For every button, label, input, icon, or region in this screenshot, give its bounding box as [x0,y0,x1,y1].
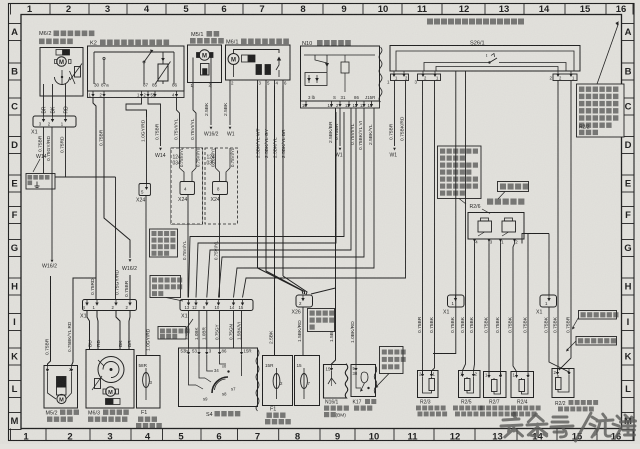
M5/2 pump dark square [57,377,67,388]
M5/1 box [188,45,222,83]
ground stub W16/2 left [51,260,54,263]
K2 bottom connector strip [88,91,185,98]
S4 supply wires from X1 with labels [188,311,190,349]
R2/6 element 1 [478,221,492,232]
S26/1 connector 3 pins 2 1 [553,74,577,81]
M6/1 box [226,45,291,80]
M6/2 resistor with arrow [75,67,81,78]
wire 0.75BR S26 conn3 crossing diagonal to R2/2 [559,81,571,371]
F1a fuse symbol [143,373,150,388]
R2/6 element 2 [502,221,516,232]
M6/3 resistor [95,379,101,389]
N16/1 internal fork symbol [328,371,332,384]
pointer from note to R2/6 label [459,199,466,205]
nested corners continued from upper wires [207,108,351,298]
N10 sub box with diodes [305,73,327,86]
pointer line to heater name text [498,192,505,200]
wire 0.75BK R2/6 pin1 to R2/7 pin2 [500,244,502,376]
S26/1 wide box [390,46,580,72]
M6/1 top routing wire [234,50,280,54]
K2 stepped wire to 1.0GY/RD vertical [126,98,147,118]
wire X1 pin2 down to W16/2 label 0.75GY/RD [51,127,53,256]
note box: wire colour code [579,311,617,320]
N10 relay internals [304,54,375,56]
wire 0.75BK from S26 conn2 to R2/3 pin1 [432,81,435,375]
R2/6 pin2 n-bend wire over to x549 [522,234,549,244]
heater R2/5 right washer nozzle hose [459,371,481,398]
wire X24-8 down to X1 pin10 [219,195,221,298]
M6/1 connector pair [242,55,249,62]
connector X24 pin 5 [139,184,151,196]
S4 internal stepped wiring [189,355,197,385]
component M6/2 box [40,48,83,97]
connector X1 lower-left [83,300,137,311]
M6/1 output wires 2.5BK/YL bundle [257,86,259,269]
wire M6/1 pin2 to ground W1 label 2.5BK [229,86,231,126]
grid row letters left and right [9,24,22,41]
note box: pin sequence on connector [150,276,181,298]
note box: device code explanation [438,146,482,199]
M6/3 pins and wires BU RD BK BR [87,311,90,350]
component M5/2 headlamp washer pump [44,366,78,409]
wire X1 pin3 down to ground W14 label 0.75BR [43,127,45,174]
S26/1 connector 2 pins 2 1 [418,74,441,81]
M5/1 motor M [199,50,209,60]
heater R2/7 windshield washer pump hose [484,372,507,398]
M6/3 motor M [106,387,116,397]
fuse box F1b [263,356,293,406]
K17 wavy right edge [374,366,377,394]
connector X1 lower-right long [180,300,253,311]
dashed variant box 124 036 [205,148,238,224]
dashed variant box 124 034 [171,148,203,224]
wire 0.75BK from S26 box to R2/5 pin1 [463,71,466,371]
inline connector X1 mid lower 2 [540,295,557,307]
M6/2 motor M [57,57,67,67]
M6/2 connector pair [56,50,63,56]
R2/6 pins 4 3 1 2 [474,239,476,244]
wire M5/1 pin1 to dashed box1 label 0.75VI/YL [193,88,196,148]
K2 pin2 wire to W14 right ground [148,98,161,147]
wire X24-5 down to fuse box F1a [145,196,147,356]
K2 relay internals [94,51,174,53]
wire X26 down to fuse box label 1.5BK/RD [302,307,304,356]
connector X1 top-left [33,116,76,127]
text: one-way valve heating [487,199,493,205]
M6/1 pins 2 3 5 4 6 [229,80,231,86]
N10 box [301,46,380,101]
S4 wavy break right edge [256,349,259,411]
M6/1 wire 2.5BK/YL straight down to fuse box F1b [274,86,276,356]
grid column numbers top [10,4,12,15]
wire 0.75BK S26 conn3 to R2/2 pin2 [557,81,560,373]
vertical wire x115 to lower X1 label 0.75GY/RD [115,177,117,300]
note box: connector code [158,327,186,340]
scan noise overlay [0,0,1,1]
wire 0.75BK R2/6 pin3 to R2/7 pin1 [488,244,490,376]
watermark toutiao qixiujun [501,413,636,441]
wire 0.75BK from bend to R2/4 pin2 [527,234,529,372]
wire X24-4 down to X1 pin13 [187,195,189,298]
M6/2 pin stubs [43,84,45,96]
note box: coordinate explanation with arrow to corner [597,24,619,85]
M5/2 motor M [57,394,66,403]
M6/3 connector pair [106,399,113,405]
heater R2/2 left windshield washer hose [552,369,574,398]
note box: curve shows part of connector [308,309,335,332]
wire M5/1 pin2 to ground W16/2 label 2.5BK [210,88,212,125]
K2 relay box [88,46,185,91]
K17 internal pressure switch symbol [361,372,368,383]
N10 output wire to N16/1 with labels [332,108,336,365]
M5/1 pump symbol [201,64,210,76]
wire 0.75BK through inline X1 to R2/2 pin1 [548,234,550,296]
note box: wire gauge code [576,337,617,346]
wire K2 pin 2Y down to ground W16/2 label 0.75BR [104,98,130,259]
component K17 pressure relay [351,365,376,397]
N10 wavy break line right edge [379,47,382,102]
M5/2 supply wire corner route label 0.75BK/YL RD [72,278,97,366]
wires M6/2 to X1 with labels BR BK RD [43,96,45,116]
S4 quarter arc contact [212,377,228,393]
wire 0.75BK from R2/6 pin4 to R2/5 pin2 [474,244,475,371]
note box: different vehicle variants [150,229,178,257]
wire K2 pin4 to dashed box1 label 0.75VI/YL [177,98,180,149]
ground point marker box [26,174,55,190]
wire below W16/2 to lower X1 pin2 [129,275,131,300]
S4 terminals 53b 53 3 86 15R [188,348,190,352]
wire 0.75BR from S26 conn2 to R2/3 pin2 [422,81,424,375]
component S4 combination switch box [179,348,258,407]
inline connector X1 mid lower 1 [448,295,465,307]
M5/1 side rails [192,58,194,83]
component N16/1 power control module with wavy right edge [324,364,348,398]
S26/1 thermal switch contact [489,62,491,64]
wire X1 pin1 down label 0.75RD [65,127,67,170]
X26 feeder branch wire [311,288,336,294]
S26/1 inner bus lines [396,51,574,71]
S26/1 connector 1 pins 1 2 [391,74,409,81]
component M6/3 right headlamp wiper motor [86,350,134,409]
fuse box third [295,356,320,406]
wire from ground box to junction x115 [55,176,116,178]
M5/2 supply wire from W16/2 label 0.75BR [48,276,51,366]
N10 wire to ground W1 [339,108,341,146]
component R2/6 check valve heater box [468,213,524,240]
M6/1 two resistors [256,65,262,75]
grid column numbers bottom [10,429,12,441]
connector X26 with converging wires [296,295,313,307]
wire 0.75BK R2/6 pin2 to R2/4 pin1 [513,244,517,372]
arrow from wavy note to K17 [377,374,390,387]
M6/2 lower rotor arc [55,77,70,85]
heater R2/3 right windshield washer nozzle [418,371,439,398]
N10 wire to K17 label 0.75VI/YL then 1.0BK/RD [355,108,357,365]
S26 connector1 pin1 wire to ground W1 label 0.75BR [394,81,396,147]
N10 bottom pin strip [301,101,380,108]
M6/3 worm gear circle [98,357,124,383]
note box: device name [498,182,529,192]
M6/1 motor M [228,54,239,65]
wire 0.75BK from S26 box through inline X1 with L-turn [433,71,456,354]
X24 pin 4 connector in box1 [179,148,181,168]
fuse box F1a [137,356,161,409]
title text: windshield heated washer system thermal switch [427,19,433,25]
heater R2/4 left washer nozzle hose [511,372,534,398]
X24 pin 8 connector in box2 [215,148,217,168]
wire K2 pin 1Y down long vertical to X1 [93,98,96,300]
note box: wavy line indicates part of device [380,347,404,374]
M6/1 switch contact [277,57,281,61]
nested corner bus wires from N10 and S26 to X1 connector [350,108,352,250]
K2 relay coil [158,64,168,81]
